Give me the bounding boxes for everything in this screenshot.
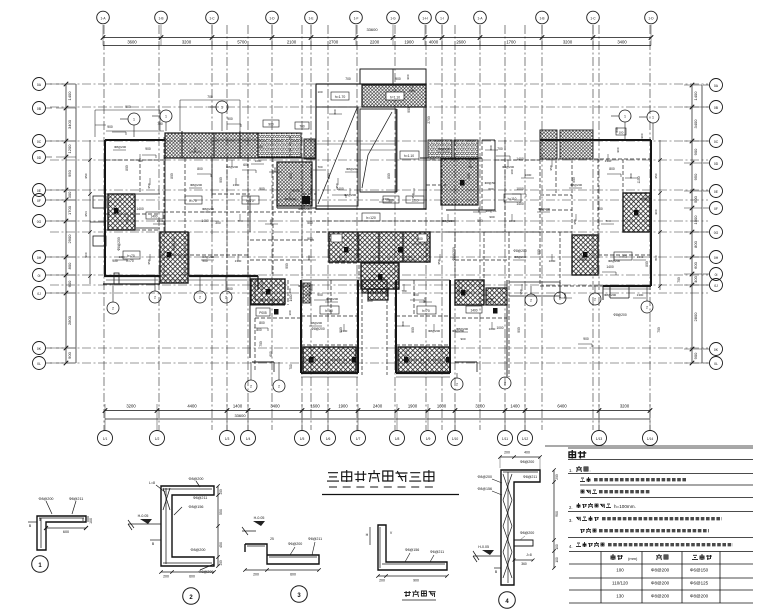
svg-text:1-D: 1-D	[648, 16, 654, 20]
svg-text:1000: 1000	[487, 297, 494, 301]
svg-text:1000: 1000	[119, 255, 126, 259]
svg-text:900: 900	[307, 237, 313, 241]
svg-text:800: 800	[654, 255, 658, 260]
svg-text:200: 200	[379, 579, 385, 583]
svg-text:Φ8@200: Φ8@200	[114, 145, 126, 149]
small dims upper right wing	[616, 128, 644, 153]
svg-text:2: 2	[250, 385, 252, 389]
svg-text:1/14: 1/14	[647, 437, 654, 441]
svg-text:1900: 1900	[338, 404, 348, 409]
svg-text:700: 700	[309, 355, 314, 359]
SE wall stub	[506, 280, 508, 377]
svg-text:h=1.10: h=1.10	[404, 154, 414, 158]
left inner dimension line	[84, 140, 92, 284]
svg-text:200: 200	[253, 573, 259, 577]
stairwell 2 (elevator shaft)	[360, 107, 424, 209]
svg-text:Φ8@200: Φ8@200	[520, 531, 535, 535]
svg-text:0L: 0L	[714, 362, 718, 366]
svg-text::: :	[589, 468, 590, 473]
corridor partitions center-left	[250, 136, 316, 277]
level boxes bottom apartments	[123, 196, 436, 314]
hatched balcony B	[398, 347, 450, 372]
svg-text:h=70: h=70	[292, 189, 300, 193]
svg-text:1400: 1400	[201, 219, 209, 223]
svg-text:500: 500	[84, 252, 88, 257]
more dashed partitions	[106, 158, 651, 375]
svg-text:0H: 0H	[37, 256, 42, 260]
svg-text:0F: 0F	[714, 207, 718, 211]
rebar annotation clutter	[114, 89, 652, 361]
top axis circles	[97, 11, 658, 24]
svg-text:700: 700	[407, 255, 412, 259]
svg-text:800: 800	[170, 173, 174, 179]
svg-text:3200: 3200	[182, 40, 192, 45]
svg-text:1-A: 1-A	[101, 16, 107, 20]
svg-text:Φ8@200: Φ8@200	[326, 297, 338, 301]
svg-text:Φ8@200: Φ8@200	[438, 147, 450, 151]
svg-text:1000: 1000	[255, 159, 262, 163]
svg-text:1900: 1900	[404, 40, 414, 45]
svg-text:950: 950	[309, 289, 313, 294]
svg-text:2400: 2400	[373, 404, 383, 409]
SE mirrored walls + boxes	[288, 284, 504, 372]
svg-text:800: 800	[477, 207, 481, 212]
svg-text:900: 900	[640, 133, 644, 138]
svg-text:900: 900	[112, 259, 118, 263]
P005 box + marks lower-left	[256, 294, 293, 369]
level box right wing	[614, 252, 632, 260]
svg-text:1400: 1400	[67, 91, 72, 101]
hatched slab right wing south	[572, 235, 598, 275]
hatched slab left lower	[251, 279, 285, 304]
svg-text:2700: 2700	[329, 40, 339, 45]
svg-text:780: 780	[257, 145, 263, 149]
svg-text:1-B: 1-B	[159, 16, 164, 20]
svg-text:1/3: 1/3	[225, 437, 230, 441]
svg-text:2: 2	[646, 306, 648, 310]
svg-text:4000: 4000	[429, 40, 439, 45]
svg-text:0I: 0I	[38, 274, 41, 278]
leader segments clutter	[113, 84, 646, 360]
svg-text:1400: 1400	[150, 215, 157, 219]
svg-text:1000: 1000	[693, 215, 698, 225]
svg-text:800: 800	[537, 249, 541, 255]
svg-text:800: 800	[67, 262, 72, 269]
svg-text:900: 900	[616, 147, 620, 152]
svg-text:100: 100	[219, 560, 223, 566]
svg-text:L=8: L=8	[149, 481, 155, 485]
double lines under wing bottom walls	[106, 280, 651, 377]
svg-text:900: 900	[259, 187, 265, 191]
svg-text:2: 2	[199, 296, 201, 300]
svg-text:1: 1	[133, 118, 135, 122]
right dimension chain	[684, 83, 702, 366]
svg-text:900: 900	[555, 511, 559, 517]
svg-text:100: 100	[616, 568, 624, 573]
svg-text:950: 950	[335, 183, 339, 188]
svg-text:800: 800	[645, 261, 649, 267]
svg-text:Φ8@200: Φ8@200	[172, 237, 176, 250]
svg-text:400: 400	[524, 451, 530, 455]
svg-text:850: 850	[467, 173, 471, 179]
svg-text:2: 2	[154, 296, 156, 300]
tower hatched strip	[362, 85, 426, 107]
hatched slab left edge	[108, 194, 135, 230]
svg-text:900: 900	[145, 147, 151, 151]
svg-text:3200: 3200	[563, 40, 573, 45]
svg-text:954: 954	[84, 211, 88, 216]
svg-text:800: 800	[423, 297, 427, 302]
svg-text:0A: 0A	[714, 84, 719, 88]
title pseudo-CJK: er ceng ban ping fa shi gong tu	[322, 470, 459, 495]
svg-text:1/5: 1/5	[300, 437, 305, 441]
svg-text:1/9: 1/9	[426, 437, 431, 441]
svg-text:900: 900	[317, 293, 323, 297]
svg-text:h=70: h=70	[189, 199, 197, 203]
svg-text:1-E: 1-E	[309, 16, 314, 20]
detail 2 C-shaped wall section	[128, 477, 223, 604]
svg-text:700: 700	[207, 95, 213, 99]
svg-text:Φ8@211: Φ8@211	[193, 496, 208, 500]
svg-text:h=100mm.: h=100mm.	[614, 504, 636, 509]
svg-text:700: 700	[289, 364, 293, 370]
svg-text:900: 900	[693, 148, 698, 155]
svg-text:1-F: 1-F	[354, 16, 359, 20]
svg-text:Φ8@200: Φ8@200	[651, 581, 670, 586]
svg-text:200: 200	[504, 451, 510, 455]
svg-text:2600: 2600	[456, 40, 466, 45]
svg-text:Φ8@200: Φ8@200	[513, 249, 526, 253]
svg-text:950: 950	[125, 219, 129, 224]
svg-text:3400: 3400	[617, 40, 627, 45]
svg-text:1000: 1000	[496, 326, 503, 330]
svg-text:H: H	[366, 533, 369, 537]
svg-text:J=8: J=8	[526, 553, 532, 557]
bottom apartment A walls	[301, 280, 358, 373]
svg-text:800: 800	[269, 219, 273, 224]
svg-text:1300: 1300	[157, 219, 164, 223]
svg-text:900: 900	[227, 117, 233, 121]
bottom axis circles	[98, 431, 658, 446]
detail 1 L-shaped slab section	[28, 497, 93, 572]
svg-text:900: 900	[67, 351, 72, 358]
svg-text:800: 800	[288, 288, 292, 293]
svg-text:1300: 1300	[383, 197, 390, 201]
svg-text:0F: 0F	[37, 199, 41, 203]
svg-text:800: 800	[193, 147, 197, 152]
svg-text:Φ8@200: Φ8@200	[690, 594, 709, 599]
svg-text:Φ8@200: Φ8@200	[520, 460, 535, 464]
top dimension chain	[101, 25, 654, 46]
svg-text:800: 800	[273, 167, 277, 172]
svg-text:Φ8@200: Φ8@200	[452, 247, 456, 260]
svg-text:Φ8@50: Φ8@50	[485, 181, 496, 185]
svg-text:300: 300	[215, 221, 221, 225]
svg-text:950: 950	[84, 173, 88, 178]
svg-text:1: 1	[165, 115, 167, 119]
svg-text:0I: 0I	[715, 273, 718, 277]
svg-text:800: 800	[489, 145, 493, 150]
svg-text:700: 700	[259, 341, 263, 347]
svg-text:1/8: 1/8	[395, 437, 400, 441]
svg-text:100: 100	[555, 557, 559, 563]
svg-text:300: 300	[67, 191, 72, 198]
svg-text:800: 800	[401, 321, 405, 326]
svg-text:900: 900	[107, 125, 113, 129]
tower inner landing lines	[316, 109, 426, 209]
stair tower outline	[316, 84, 426, 209]
svg-text:Φ8@156: Φ8@156	[189, 505, 204, 509]
right wing outer walls	[540, 130, 651, 300]
svg-text:950: 950	[147, 259, 151, 264]
svg-text:900: 900	[693, 352, 698, 359]
svg-text:1300: 1300	[637, 293, 644, 297]
svg-text:600: 600	[290, 573, 296, 577]
svg-text:3.: 3.	[569, 518, 573, 523]
svg-text:800: 800	[289, 173, 293, 179]
svg-text:0E: 0E	[37, 189, 42, 193]
svg-text:h=70: h=70	[127, 254, 135, 258]
svg-text:900: 900	[395, 77, 401, 81]
svg-text:900: 900	[460, 337, 465, 341]
svg-text:800: 800	[581, 255, 585, 260]
svg-text:1200: 1200	[67, 144, 72, 154]
svg-text:P005: P005	[259, 311, 267, 315]
small leader hooks	[112, 124, 621, 347]
right wing hatched strip	[540, 130, 557, 159]
svg-text:1000: 1000	[525, 173, 532, 177]
svg-text:110/120: 110/120	[612, 581, 628, 586]
svg-text:1900: 1900	[408, 404, 418, 409]
svg-text:1400: 1400	[136, 207, 144, 211]
svg-text:900: 900	[417, 237, 423, 241]
svg-text:950: 950	[573, 219, 577, 224]
svg-text:1-A: 1-A	[478, 16, 484, 20]
svg-text:0J: 0J	[37, 292, 41, 296]
bottom apartment B walls	[396, 280, 450, 373]
svg-text:4400: 4400	[187, 404, 197, 409]
svg-text:3400: 3400	[270, 404, 280, 409]
svg-text:900: 900	[411, 327, 415, 333]
svg-text:800: 800	[629, 173, 633, 178]
detail 4 tall wall section	[473, 451, 559, 609]
svg-text:3400: 3400	[693, 119, 698, 129]
svg-text:0K: 0K	[37, 347, 42, 351]
scattered annotation texts	[107, 77, 681, 347]
hatched slab right of tower	[441, 159, 478, 205]
svg-text:25: 25	[270, 537, 274, 541]
svg-text:200: 200	[163, 575, 169, 579]
vertical axis grid lines	[104, 25, 650, 430]
svg-text:Φ8@156: Φ8@156	[405, 548, 420, 552]
svg-text:Φ8@156: Φ8@156	[477, 487, 492, 491]
svg-text:0B: 0B	[714, 106, 719, 110]
svg-text:800: 800	[125, 165, 129, 171]
svg-text:800: 800	[563, 293, 567, 298]
svg-text:700: 700	[497, 147, 503, 151]
svg-text:1-B: 1-B	[540, 16, 545, 20]
svg-text:h=1.10: h=1.10	[390, 96, 400, 100]
svg-text:(mm): (mm)	[628, 556, 638, 561]
bottom dimension chain	[103, 404, 653, 431]
svg-text:1-H: 1-H	[422, 16, 428, 20]
svg-text:450: 450	[219, 542, 223, 548]
hatched slab left-center	[160, 232, 188, 283]
svg-text:Φ8@200: Φ8@200	[190, 183, 202, 187]
svg-text:1/4: 1/4	[246, 437, 251, 441]
svg-text:h=90: h=90	[619, 255, 627, 259]
svg-text:Φ8@200: Φ8@200	[202, 207, 214, 211]
svg-text:2: 2	[278, 385, 280, 389]
svg-text:1400: 1400	[289, 294, 293, 301]
rubble slabs right of tower	[428, 140, 452, 158]
svg-text:1: 1	[221, 106, 223, 110]
svg-text:1: 1	[624, 115, 626, 119]
svg-text:1000: 1000	[516, 187, 524, 191]
svg-text:850: 850	[387, 173, 391, 179]
right-of-tower room labels	[420, 158, 521, 219]
svg-text:1/11: 1/11	[502, 437, 508, 441]
hatched slab mid 3	[361, 263, 399, 289]
left dimension chain	[56, 82, 76, 366]
svg-text:800: 800	[333, 109, 337, 114]
svg-text:700: 700	[317, 165, 322, 169]
svg-text:0J: 0J	[714, 284, 718, 288]
svg-text:3100: 3100	[475, 404, 485, 409]
svg-text:1600: 1600	[437, 404, 447, 409]
svg-text:950: 950	[549, 165, 553, 170]
svg-text:0G: 0G	[714, 231, 719, 235]
svg-text:Φ6@125: Φ6@125	[690, 581, 709, 586]
svg-text:1400: 1400	[470, 309, 477, 313]
svg-text:2800: 2800	[693, 312, 698, 322]
right axis circles	[703, 79, 723, 370]
big hatched slab left of tower	[277, 162, 312, 206]
svg-text:100: 100	[619, 131, 624, 135]
svg-text:2900: 2900	[67, 234, 72, 244]
svg-text:2: 2	[225, 296, 227, 300]
svg-text:0L: 0L	[37, 362, 41, 366]
svg-text:500: 500	[477, 219, 483, 223]
svg-text:Φ8@200: Φ8@200	[613, 313, 626, 317]
svg-text:1400: 1400	[606, 265, 614, 269]
upper-left leader dims above wing	[95, 100, 240, 137]
upper strip inner divider lines	[182, 131, 261, 158]
svg-text:2: 2	[456, 383, 458, 387]
svg-text:3600: 3600	[127, 40, 137, 45]
svg-text:600: 600	[189, 575, 195, 579]
svg-text:600: 600	[488, 187, 493, 191]
bottom apartment partitions	[301, 232, 603, 377]
svg-text:Φ8@211: Φ8@211	[523, 475, 537, 479]
svg-text:0E: 0E	[714, 190, 719, 194]
svg-text:33600: 33600	[366, 27, 378, 32]
svg-text:900: 900	[285, 263, 289, 269]
hatched slab mid strip	[329, 232, 430, 262]
svg-text:300: 300	[288, 310, 292, 315]
svg-text:100: 100	[317, 90, 322, 94]
svg-text:Φ8@200: Φ8@200	[39, 497, 54, 501]
hatched gap slab	[362, 280, 387, 293]
svg-text:900: 900	[202, 259, 208, 263]
svg-text:1-C: 1-C	[209, 16, 215, 20]
rubble slab strip left	[258, 133, 301, 157]
svg-text:h=110: h=110	[508, 197, 517, 201]
svg-text:2: 2	[112, 307, 114, 311]
svg-text:800: 800	[693, 240, 698, 247]
svg-text:2.: 2.	[569, 505, 573, 510]
left wing outer walls	[105, 140, 285, 358]
svg-text:Φ8@200: Φ8@200	[538, 207, 550, 211]
svg-text:600: 600	[67, 280, 72, 287]
svg-text:800: 800	[307, 255, 311, 260]
svg-text:2800: 2800	[67, 315, 72, 325]
svg-text:900: 900	[125, 105, 131, 109]
svg-text:1300: 1300	[637, 255, 644, 259]
hatched balcony A	[303, 347, 356, 372]
svg-text:950: 950	[437, 259, 441, 264]
svg-text:100: 100	[89, 518, 93, 524]
top-right room walls	[446, 140, 495, 210]
svg-text:2200: 2200	[370, 40, 380, 45]
svg-text:1400: 1400	[510, 404, 520, 409]
svg-text:800: 800	[256, 328, 262, 332]
svg-text:1/1: 1/1	[103, 437, 108, 441]
svg-text:33600: 33600	[234, 413, 246, 418]
long underline bottom right of plan	[545, 445, 753, 447]
svg-text:Φ8@200: Φ8@200	[456, 327, 468, 331]
svg-text:Φ8@200: Φ8@200	[311, 327, 324, 331]
left wing interior partitions	[106, 137, 316, 277]
stairwell 1 with flight diagonal	[316, 107, 358, 206]
svg-text:900: 900	[406, 74, 410, 79]
svg-text:Φ8@16: Φ8@16	[486, 209, 497, 213]
svg-text:Φ8@200: Φ8@200	[651, 568, 670, 573]
svg-text:0A: 0A	[37, 83, 42, 87]
hatched slab mid small	[368, 289, 388, 300]
svg-text:1-I: 1-I	[440, 16, 444, 20]
svg-text:900: 900	[268, 123, 274, 127]
svg-text:800: 800	[609, 167, 615, 171]
svg-text:1400: 1400	[693, 91, 698, 101]
right wing partitions	[540, 159, 651, 275]
svg-text:1/2: 1/2	[155, 437, 160, 441]
svg-text:550: 550	[219, 509, 223, 515]
svg-text:600: 600	[693, 261, 698, 268]
svg-text:h=70: h=70	[126, 259, 134, 263]
svg-text:2100: 2100	[287, 40, 297, 45]
hatch inner marks	[114, 180, 639, 363]
left wing inner solid partitions	[136, 158, 560, 300]
svg-text:200: 200	[555, 474, 559, 480]
svg-text:950: 950	[67, 169, 72, 176]
svg-text:2: 2	[530, 299, 532, 303]
svg-text:360: 360	[521, 562, 527, 566]
svg-text:Φ8@200: Φ8@200	[191, 548, 206, 552]
svg-text:950: 950	[411, 193, 415, 198]
svg-text:400: 400	[693, 275, 698, 282]
svg-text:h=120: h=120	[366, 216, 376, 220]
svg-text:1-D: 1-D	[269, 16, 275, 20]
svg-text:900: 900	[583, 337, 589, 341]
svg-text:100: 100	[219, 489, 223, 495]
svg-text:H-0.05: H-0.05	[478, 545, 489, 549]
svg-text:500: 500	[307, 221, 313, 225]
tower bottom dim texts	[383, 196, 424, 203]
svg-text:2: 2	[594, 298, 596, 302]
hatched slab SE	[455, 280, 484, 305]
svg-text:h=80: h=80	[325, 309, 333, 313]
